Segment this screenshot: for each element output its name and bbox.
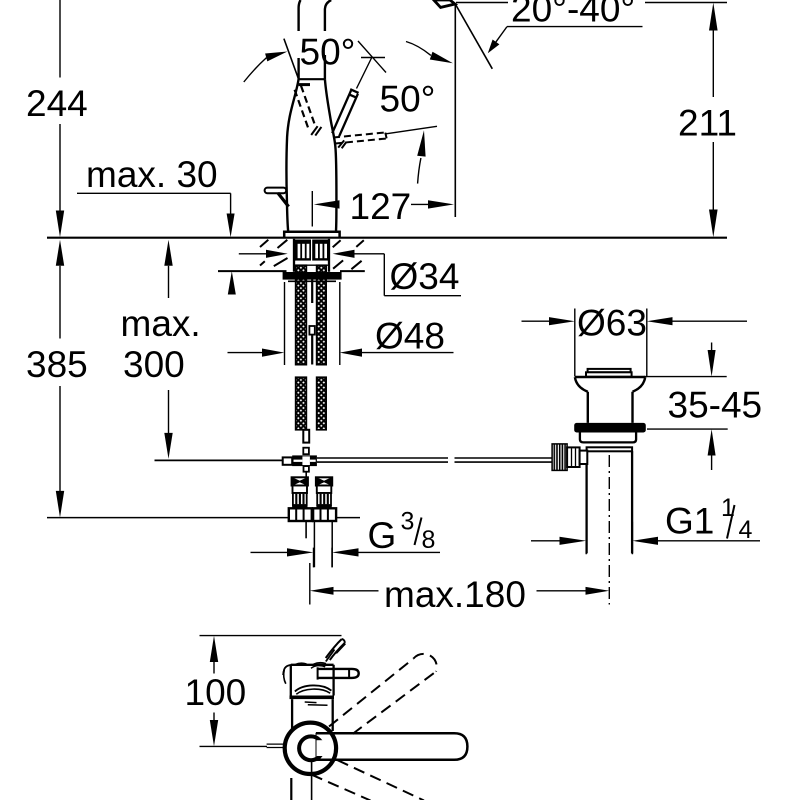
hose tail pipe right (314, 521, 332, 568)
plan left stub tube (267, 744, 286, 747)
svg-text:50°: 50° (300, 32, 356, 73)
threaded shank in counter hole (294, 239, 329, 272)
rod connector block (292, 455, 317, 466)
svg-text:4: 4 (739, 516, 753, 544)
svg-text:G: G (368, 515, 397, 556)
counter hatching (260, 240, 364, 269)
rod sleeve (283, 457, 293, 464)
mounting washer nut (283, 272, 342, 281)
rod guide tube (303, 430, 309, 454)
faucet body (286, 79, 336, 231)
svg-text:35-45: 35-45 (668, 385, 763, 426)
horizontal pull rod left segment (155, 459, 283, 461)
svg-text:Ø48: Ø48 (375, 316, 445, 357)
drain flange funnel (575, 377, 645, 423)
dimension 385 (26, 240, 88, 518)
dimension 127 (312, 186, 454, 227)
svg-text:3: 3 (401, 508, 415, 536)
flexible supply hoses (braided) upper (296, 265, 327, 365)
dimension 50deg lever arc (333, 79, 437, 184)
faucet riser tube (299, 0, 332, 79)
plan dashed spout position upper (329, 654, 437, 734)
dimension 35-45 (644, 343, 762, 471)
dashed lever alternate position (295, 85, 315, 130)
supply hose end fitting left (289, 477, 312, 521)
dimension dia 34 (239, 250, 461, 297)
plan faucet body (283, 663, 334, 696)
plan lower body sides (292, 699, 333, 731)
pop-up rod vertical (309, 272, 314, 365)
plan lower connection lines (290, 778, 292, 800)
pop-up waste plug lid (586, 369, 632, 377)
plan view bottom extension line (200, 745, 268, 747)
shank outline extension lines (285, 282, 340, 365)
svg-text:max.180: max.180 (384, 574, 526, 615)
svg-text:20°-40°: 20°-40° (511, 0, 635, 30)
svg-text:G1: G1 (665, 501, 714, 542)
flexible supply hoses (braided) lower (296, 377, 327, 430)
drain rubber seal ring (574, 423, 646, 433)
plan cartridge sketch waves (295, 685, 332, 694)
plan spout tube solid (316, 733, 467, 760)
spout outlet axis line (454, 3, 456, 217)
40deg alternate spout tick (456, 5, 493, 69)
plan view top extension line (200, 635, 342, 637)
drain tailpipe (587, 451, 633, 553)
supply hose end fitting right (313, 477, 336, 521)
plan spout inner ring (299, 736, 326, 760)
drain centerline (608, 455, 610, 605)
countertop surface line (47, 237, 727, 239)
svg-text:max.: max. (121, 303, 201, 344)
faucet base flange (284, 232, 339, 238)
dimension 50deg swivel (top) (244, 32, 453, 83)
plan lever knob (311, 666, 359, 680)
sketch hash marks on body (311, 126, 346, 148)
plan body band (290, 696, 335, 700)
drain tailpipe collar (587, 447, 633, 451)
svg-text:127: 127 (350, 186, 412, 227)
rod tail left (305, 521, 307, 539)
G 1 1/4 thread label (531, 494, 760, 554)
plan dashed spout position lower (312, 760, 424, 800)
dimension 100 (185, 636, 247, 747)
svg-text:300: 300 (123, 344, 185, 385)
svg-text:max. 30: max. 30 (86, 154, 218, 195)
horizontal pull rod right segment (317, 458, 552, 462)
svg-text:8: 8 (422, 526, 436, 554)
svg-text:100: 100 (185, 672, 247, 713)
svg-text:Ø63: Ø63 (577, 303, 647, 344)
svg-text:244: 244 (26, 83, 88, 124)
rod stem to hoses (304, 466, 309, 477)
lever angle vertex cross (357, 41, 387, 89)
drain body below seal (580, 433, 636, 443)
rod coupling knurled knob (552, 444, 587, 471)
dimension 244 (26, 0, 88, 237)
dimension 20-40deg label and leader (488, 0, 643, 53)
plan raised lever sketch (326, 639, 345, 660)
lever handle (50deg tilt) (332, 89, 358, 136)
385 bottom reference line (47, 517, 360, 519)
plan sketch hash marks (326, 644, 346, 662)
pop-up pull knob (265, 188, 289, 207)
svg-text:Ø34: Ø34 (390, 256, 460, 297)
spout outlet tip (top, clipped) (434, 0, 455, 7)
dimension max.300 (121, 240, 201, 459)
plan small zigzag (305, 702, 328, 705)
dimension 211 (456, 3, 737, 238)
G 3/8 thread label (251, 508, 441, 568)
dimension max.180 (310, 563, 610, 615)
dimension max.30 (77, 154, 236, 295)
counter hole bottom lines (218, 270, 365, 272)
dimension dia 63 (522, 303, 748, 377)
svg-text:50°: 50° (380, 79, 436, 120)
plan spout base ring (285, 723, 336, 774)
dimension dia 48 (228, 316, 454, 357)
svg-text:211: 211 (678, 103, 737, 144)
svg-text:385: 385 (26, 344, 88, 385)
